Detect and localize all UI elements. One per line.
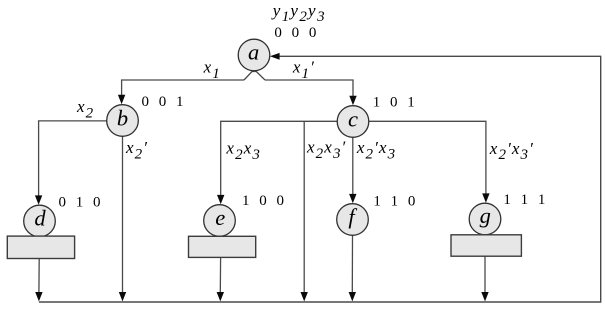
svg-text:a: a: [248, 40, 259, 65]
svg-text:x2′x3: x2′x3: [356, 138, 396, 162]
wire x2' branch b to bus: [122, 136, 124, 293]
svg-text:1 1 1: 1 1 1: [503, 192, 545, 208]
wire x2'x3 branch c to f: [352, 137, 354, 195]
wire tent below a: [244, 72, 265, 81]
svg-text:d: d: [34, 205, 46, 230]
svg-text:b: b: [117, 106, 128, 131]
node f: [337, 204, 369, 236]
node a: [238, 39, 270, 71]
wire g output to bus: [484, 256, 486, 293]
svg-text:1 0 1: 1 0 1: [373, 94, 415, 110]
output box under e: [189, 236, 256, 257]
wire d output to bus: [38, 259, 40, 293]
svg-text:x2x3: x2x3: [225, 138, 261, 162]
wire feedback: bottom bus, right riser, top run into a: [39, 56, 601, 302]
svg-text:x2x3′: x2x3′: [306, 138, 346, 162]
svg-text:1 0 0: 1 0 0: [242, 193, 284, 209]
svg-text:x1′: x1′: [292, 57, 315, 81]
node d: [24, 205, 56, 237]
node b: [107, 105, 139, 137]
wire x2x3 branch c to e: [221, 121, 338, 196]
wire f output to bus: [351, 235, 353, 293]
wire x2 branch b to d: [39, 121, 107, 197]
svg-text:x1: x1: [203, 57, 221, 81]
output box under d: [7, 236, 74, 258]
wire x2x3' branch c to bus: [303, 121, 305, 293]
output box under g: [451, 235, 521, 256]
svg-text:y1y2y3: y1y2y3: [271, 1, 326, 25]
wire x1 branch to b: [122, 80, 244, 95]
wire x1' branch to c: [265, 80, 353, 96]
wire e output to bus: [219, 257, 221, 293]
svg-text:x2: x2: [76, 97, 94, 121]
svg-text:0 1 0: 0 1 0: [59, 194, 101, 210]
svg-text:c: c: [348, 106, 358, 131]
node e: [204, 205, 236, 237]
node g: [469, 203, 501, 235]
svg-text:x2′x3′: x2′x3′: [489, 139, 534, 163]
svg-text:e: e: [215, 205, 225, 230]
svg-text:g: g: [480, 203, 491, 228]
svg-text:x2′: x2′: [125, 138, 148, 162]
svg-text:0 0 0: 0 0 0: [274, 25, 316, 41]
wire x2'x3' branch c to g: [369, 121, 486, 194]
svg-text:1 1 0: 1 1 0: [373, 193, 415, 209]
node c: [337, 106, 369, 138]
arrowhead into node a: [270, 53, 280, 60]
svg-text:0 0 1: 0 0 1: [142, 94, 184, 110]
